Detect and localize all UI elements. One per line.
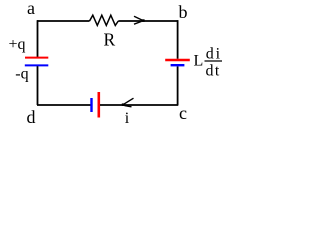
svg-text:b: b [179, 2, 188, 22]
node b [179, 2, 188, 22]
capacitor bottom plate -q [25, 64, 49, 66]
wire right upper (b down to inductor) [177, 20, 179, 59]
svg-text:R: R [104, 30, 116, 50]
svg-text:a: a [27, 0, 35, 18]
svg-text:di: di [206, 46, 222, 63]
svg-text:+q: +q [9, 36, 26, 53]
fraction bar of di/dt [205, 60, 223, 62]
wire left lower (capacitor down to d) [37, 66, 39, 105]
label L [194, 53, 204, 70]
wire resistor to node b [118, 20, 178, 22]
wire bottom-left segment d to battery [37, 104, 91, 106]
resistor R [90, 15, 119, 25]
label R [104, 30, 116, 50]
inductor symbol long plate (red) [165, 59, 190, 62]
label i [125, 110, 130, 127]
wire left upper (a down to capacitor) [37, 20, 39, 57]
wire right lower (inductor down to c) [177, 67, 179, 106]
node a [27, 0, 35, 18]
current arrow (bottom, pointing left) [122, 98, 134, 107]
svg-text:i: i [125, 110, 130, 127]
battery positive plate (long, red) [98, 92, 101, 118]
label -q [15, 66, 28, 83]
label +q [9, 36, 26, 53]
label di (numerator) [206, 46, 222, 63]
wire battery to node c [100, 104, 178, 106]
label dt (denominator) [206, 63, 221, 80]
capacitor top plate +q [25, 57, 48, 59]
svg-text:c: c [179, 103, 187, 123]
svg-text:-q: -q [15, 66, 28, 83]
node d [27, 107, 36, 127]
node c [179, 103, 187, 123]
svg-text:d: d [27, 107, 36, 127]
svg-text:dt: dt [206, 63, 221, 80]
svg-text:L: L [194, 53, 204, 70]
wire top-left segment a to resistor [37, 20, 90, 22]
current arrow (top, pointing right) [134, 16, 145, 24]
inductor symbol short plate (blue) [171, 64, 185, 66]
battery negative plate (short, blue) [90, 98, 92, 112]
